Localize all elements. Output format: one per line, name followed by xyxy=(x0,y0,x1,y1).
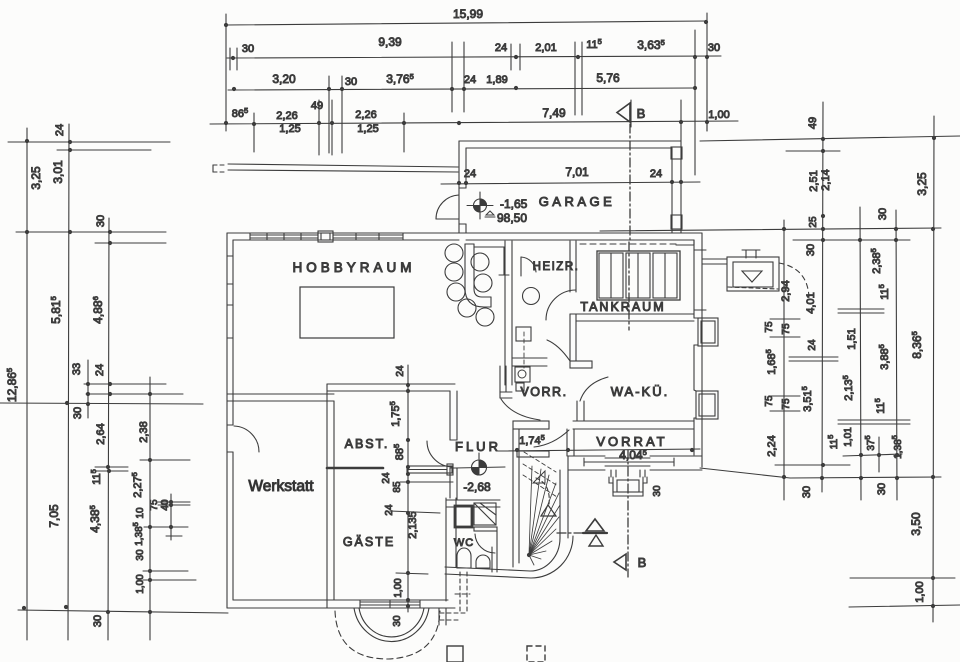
svg-text:9,39: 9,39 xyxy=(378,35,402,49)
house left exterior wall xyxy=(226,233,228,608)
svg-text:30: 30 xyxy=(876,483,888,495)
tankraum bottom wall xyxy=(570,313,694,315)
svg-text:3,01: 3,01 xyxy=(51,160,65,184)
svg-text:2,135: 2,135 xyxy=(407,511,419,539)
left dim line x=109 xyxy=(108,218,109,640)
svg-text:24: 24 xyxy=(464,168,476,180)
svg-text:1,00: 1,00 xyxy=(393,578,404,598)
svg-text:24: 24 xyxy=(807,339,818,351)
svg-text:24: 24 xyxy=(464,74,476,86)
bottom wall window (gaeste) xyxy=(360,601,420,603)
heizraum fixtures xyxy=(516,327,531,341)
svg-text:49: 49 xyxy=(311,100,323,112)
svg-text:7,05: 7,05 xyxy=(47,504,61,528)
top wall pillar xyxy=(318,231,333,242)
svg-text:24: 24 xyxy=(495,42,507,54)
section marker B bottom xyxy=(614,554,626,570)
section line B dash-dot vertical xyxy=(629,107,631,242)
dashed pipe arc xyxy=(779,263,809,298)
heizr/tank wall xyxy=(569,241,571,292)
svg-text:24: 24 xyxy=(54,124,66,136)
svg-text:30: 30 xyxy=(877,208,889,220)
gaeste door threshold wall xyxy=(327,467,383,470)
house top exterior wall xyxy=(227,232,702,234)
house bottom exterior wall xyxy=(227,607,455,609)
stair direction arrow xyxy=(541,505,556,516)
werkstatt entry door swing xyxy=(234,426,259,452)
svg-text:30: 30 xyxy=(652,485,663,497)
svg-text:2,94: 2,94 xyxy=(780,280,792,301)
abst door swing xyxy=(427,441,453,467)
svg-text:2,14: 2,14 xyxy=(820,169,832,190)
svg-text:7,49: 7,49 xyxy=(542,106,566,120)
svg-text:2,51: 2,51 xyxy=(808,170,820,191)
left dim short line x=171 xyxy=(170,494,172,540)
svg-text:24: 24 xyxy=(384,504,395,516)
garage walls xyxy=(459,140,681,142)
svg-text:1,00: 1,00 xyxy=(708,109,729,121)
svg-text:24: 24 xyxy=(650,168,662,180)
garage dim line 24/7,01/24 xyxy=(441,182,700,184)
svg-text:1,01: 1,01 xyxy=(843,427,854,447)
lobby door swing xyxy=(534,430,569,447)
svg-text:30: 30 xyxy=(92,615,104,627)
svg-text:1,00: 1,00 xyxy=(135,574,146,594)
top dimension chain row 1 (15,99) xyxy=(226,21,707,25)
svg-text:1,51: 1,51 xyxy=(846,328,858,349)
svg-text:12,865: 12,865 xyxy=(5,368,19,402)
svg-text:30: 30 xyxy=(345,76,357,88)
spiral stair fan xyxy=(529,466,560,565)
heizraum bottom wall xyxy=(512,357,547,359)
right extent vertical xyxy=(706,13,708,131)
svg-text:7,01: 7,01 xyxy=(565,165,589,179)
svg-text:VORR.: VORR. xyxy=(520,385,567,399)
svg-text:30: 30 xyxy=(801,486,813,498)
svg-text:85: 85 xyxy=(392,481,403,493)
svg-text:24: 24 xyxy=(94,364,106,376)
vorr bottom wall / stair lobby door frame xyxy=(513,421,549,429)
vorrat bottom wall xyxy=(568,455,605,457)
svg-text:VORRAT: VORRAT xyxy=(596,434,667,449)
svg-text:1,00: 1,00 xyxy=(914,581,926,602)
boiler circle xyxy=(523,288,540,305)
svg-text:-1,65: -1,65 xyxy=(500,197,528,211)
svg-text:2,38: 2,38 xyxy=(138,421,150,442)
svg-text:GÄSTE: GÄSTE xyxy=(343,535,395,549)
outer rounded corner xyxy=(531,536,573,578)
svg-text:75: 75 xyxy=(764,321,775,333)
svg-text:30: 30 xyxy=(135,549,146,561)
svg-text:3,20: 3,20 xyxy=(272,72,296,86)
right dim dots xyxy=(782,136,936,608)
wash basin xyxy=(476,555,490,568)
left dim short line x=88 xyxy=(87,360,89,418)
wa-kue bottom wall xyxy=(573,420,694,422)
light well upper xyxy=(698,318,718,346)
svg-text:2,26: 2,26 xyxy=(355,109,376,121)
svg-text:10: 10 xyxy=(135,507,146,519)
bar counter xyxy=(465,244,491,307)
svg-text:15,99: 15,99 xyxy=(453,7,483,21)
flur level marker -2,68 xyxy=(479,460,487,468)
right dim short line x=879 xyxy=(878,437,880,472)
gaeste right wall xyxy=(455,498,457,567)
right dim line x=934 xyxy=(933,116,934,622)
svg-text:FLUR: FLUR xyxy=(455,439,501,454)
svg-text:2,24: 2,24 xyxy=(766,435,778,456)
section marker A xyxy=(557,532,583,534)
bar chairs circles xyxy=(445,244,463,262)
svg-text:1,89: 1,89 xyxy=(486,74,507,86)
svg-text:49: 49 xyxy=(807,117,819,129)
svg-text:1,25: 1,25 xyxy=(279,123,300,135)
tankraum tanks xyxy=(597,251,680,300)
svg-text:2,26: 2,26 xyxy=(276,110,297,122)
svg-text:1,25: 1,25 xyxy=(357,123,378,135)
werkstatt top wall xyxy=(227,393,334,395)
right dim line x=896 xyxy=(896,210,897,500)
hobbyraum right wall xyxy=(504,241,506,385)
svg-text:30: 30 xyxy=(392,615,403,627)
svg-text:2,01: 2,01 xyxy=(535,42,556,54)
left dim dots xyxy=(22,139,173,614)
top dimension row 4 (86.5/2,26/49/2,26/7,49/1,00) xyxy=(210,121,738,124)
wc door swing xyxy=(475,534,495,553)
wa-kue door swing xyxy=(580,377,608,401)
duct band abst xyxy=(407,466,452,473)
top dimension row 2 (30/9,39/24/2,01/11.5/3,63.5/30) xyxy=(227,56,721,58)
hobbyraum table xyxy=(300,287,394,338)
abst/flur wall with door xyxy=(449,391,451,440)
house right exterior wall xyxy=(693,240,695,318)
left dim line x=27 (12,86.5) xyxy=(26,128,28,640)
wc top wall xyxy=(446,499,500,501)
svg-text:GARAGE: GARAGE xyxy=(539,194,616,209)
svg-text:-2,68: -2,68 xyxy=(463,480,491,494)
svg-text:4,01: 4,01 xyxy=(805,292,817,313)
light chute below vorrat xyxy=(610,470,612,477)
svg-text:2,64: 2,64 xyxy=(95,423,107,444)
svg-text:40: 40 xyxy=(160,499,171,511)
right dim horizontals xyxy=(700,136,960,141)
svg-text:75: 75 xyxy=(781,323,792,335)
top wall window left xyxy=(250,234,318,236)
svg-text:75: 75 xyxy=(149,499,160,511)
vorr door swing up xyxy=(547,340,570,361)
svg-text:WA-KÜ.: WA-KÜ. xyxy=(611,384,669,399)
svg-text:3,25: 3,25 xyxy=(915,172,929,196)
garage wall pillar bottom xyxy=(671,215,682,229)
svg-text:98,50: 98,50 xyxy=(497,211,527,225)
svg-text:B: B xyxy=(637,106,646,121)
left dim line x=69 (3,01/7,05) xyxy=(68,124,69,640)
svg-text:24: 24 xyxy=(381,472,392,484)
stair walking line xyxy=(536,478,549,504)
svg-text:3,50: 3,50 xyxy=(909,512,923,536)
svg-text:5,76: 5,76 xyxy=(596,71,620,85)
dashed garage outline over tankraum xyxy=(580,243,676,245)
svg-text:30: 30 xyxy=(708,42,720,54)
wc hatched square xyxy=(474,503,496,525)
house bottom-right walls (wc bay / stairs) xyxy=(445,567,530,571)
svg-text:HOBBYRAUM: HOBBYRAUM xyxy=(292,260,415,275)
retaining wall above house xyxy=(228,164,458,167)
top dimension row 3 (3,20/30/3,76.5/24/1,89/5,76) xyxy=(228,88,695,90)
svg-text:25: 25 xyxy=(808,216,819,228)
boiler door D xyxy=(520,257,522,276)
garage level marker -1,65 / 98,50 xyxy=(480,199,487,206)
dashed squares at bottom xyxy=(447,646,463,662)
cistern / drain structure right of house xyxy=(702,258,727,260)
left dim horizontals xyxy=(8,141,170,143)
stair left wall xyxy=(512,429,514,567)
svg-text:24: 24 xyxy=(395,365,406,377)
toilet xyxy=(457,548,471,568)
garage wall pillar top xyxy=(671,147,682,159)
vorr/wa-kue wall upper xyxy=(569,321,571,361)
wall under hobbyraum (abst top) xyxy=(327,383,455,385)
left extent vertical xyxy=(225,14,227,131)
vorrat left wall piece xyxy=(566,429,568,456)
svg-text:30: 30 xyxy=(72,407,84,419)
svg-text:TANKRAUM: TANKRAUM xyxy=(580,300,665,314)
flur-vorr door swing xyxy=(501,399,540,420)
vorr/wa-kue wall lower + door swing xyxy=(576,401,578,421)
svg-text:75: 75 xyxy=(764,395,775,407)
right dim line x=784 xyxy=(783,220,785,500)
svg-text:WC: WC xyxy=(454,537,474,549)
vorr left wall xyxy=(499,366,501,392)
bay window arcs bottom xyxy=(354,608,429,642)
svg-text:3,25: 3,25 xyxy=(29,166,43,190)
svg-text:B: B xyxy=(638,555,647,570)
svg-text:30: 30 xyxy=(95,215,107,227)
stair small arrow top xyxy=(533,471,545,483)
svg-text:Werkstatt: Werkstatt xyxy=(248,478,314,495)
flue dashed vertical xyxy=(523,332,525,368)
svg-text:30: 30 xyxy=(805,244,817,256)
vorrat dim line 4,04 xyxy=(498,449,700,451)
tankraum door swing xyxy=(546,290,576,320)
vorrat window band xyxy=(605,457,650,459)
top wall window right xyxy=(333,234,403,236)
wc inner walls xyxy=(491,547,493,572)
wc shaft dark square xyxy=(455,506,472,527)
house right top corner xyxy=(693,240,695,245)
gaeste vertical dim line xyxy=(407,365,409,612)
werkstatt right wall xyxy=(326,384,328,608)
garage side door swing xyxy=(436,195,459,219)
svg-text:75: 75 xyxy=(781,398,792,410)
svg-text:33: 33 xyxy=(71,363,83,375)
left dim line x=150 xyxy=(149,377,151,640)
dashed outline right of bay xyxy=(459,572,461,614)
section marker B top xyxy=(617,103,630,122)
right dim line x=860 xyxy=(860,207,861,500)
svg-text:30: 30 xyxy=(242,43,254,55)
light well lower xyxy=(696,391,718,419)
right dim line x=823 xyxy=(822,102,823,492)
svg-text:ABST.: ABST. xyxy=(345,437,390,451)
svg-text:HEIZR.: HEIZR. xyxy=(533,261,580,273)
